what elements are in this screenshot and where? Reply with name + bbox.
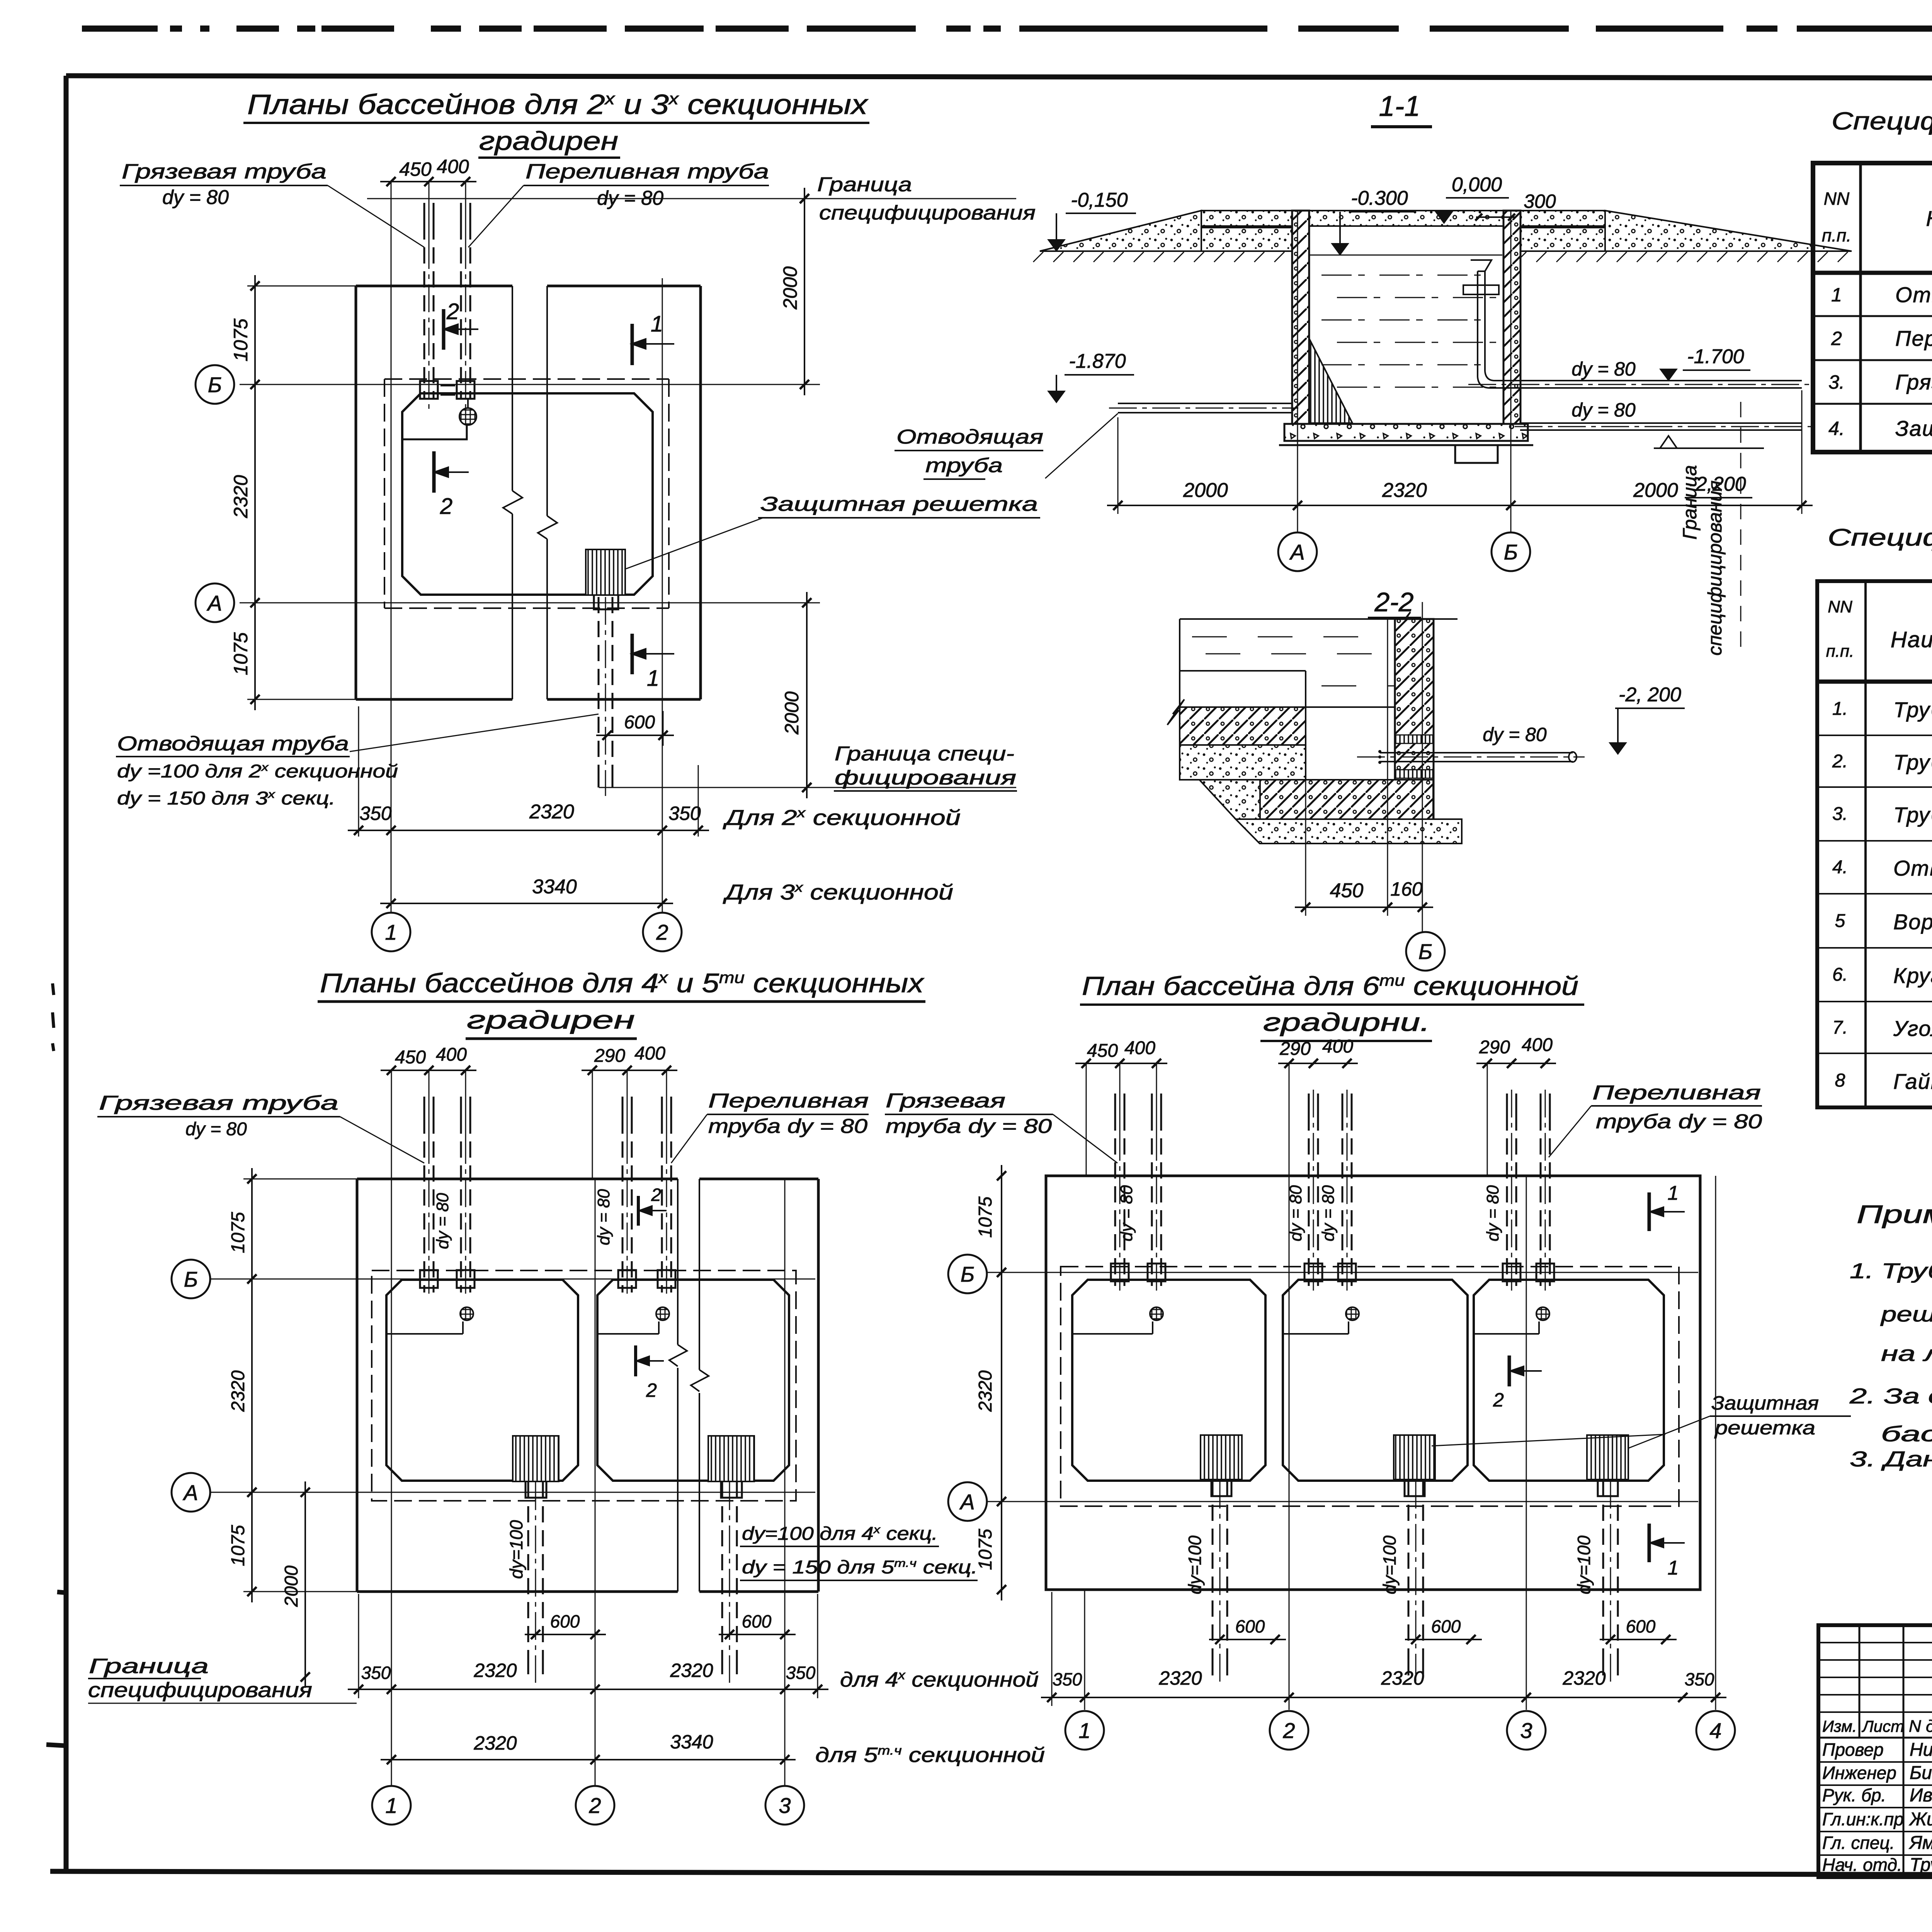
plan45 left dims 1075/2320/1075 [243, 1179, 357, 1180]
plan1 bottom dims for 3-section [380, 903, 673, 904]
basin solid contour [1283, 1280, 1468, 1481]
plan45 dashed hidden contour [372, 1270, 796, 1501]
svg-text:Наименование: Наименование [1891, 627, 1932, 652]
svg-text:2: 2 [446, 299, 459, 324]
svg-text:2320: 2320 [228, 1370, 248, 1412]
dim 600 at outlet pipe [596, 735, 674, 736]
plan6 funnels already in modules; protective grates [1201, 1435, 1242, 1480]
svg-text:2000: 2000 [779, 266, 801, 310]
svg-text:NN: NN [1824, 189, 1850, 209]
svg-text:3340: 3340 [532, 876, 577, 898]
plan45 dim 450/400 module1 [429, 1070, 430, 1140]
basin solid contour [597, 1280, 789, 1481]
plan45 axis circle 3 [765, 1786, 804, 1825]
svg-text:Гл. спец.: Гл. спец. [1822, 1833, 1895, 1853]
svg-text:градирен: градирен [479, 126, 618, 156]
svg-text:400: 400 [634, 1043, 665, 1064]
svg-text:Переливная труба: Переливная труба [1895, 326, 1932, 350]
section 1-1 drain pipe dy=80 lower [1520, 422, 1802, 424]
svg-text:Труба 102 × 3: Труба 102 × 3 [1893, 750, 1932, 774]
plan45 axis circle 1 [372, 1786, 411, 1825]
svg-text:Отводящая труба: Отводящая труба [117, 733, 349, 755]
section 1-1 overflow funnel and pipe elbow [1471, 260, 1492, 271]
section 1-1 water surface and water lines [1310, 255, 1502, 256]
svg-text:Круг ф 6: Круг ф 6 [1893, 963, 1932, 988]
svg-text:350: 350 [1053, 1669, 1082, 1689]
svg-text:1: 1 [1831, 284, 1842, 306]
svg-text:Труба 89 × 3: Труба 89 × 3 [1893, 697, 1932, 722]
svg-text:2320: 2320 [529, 801, 574, 823]
section mark 1 lower [631, 634, 634, 674]
level mark -2.200 [1654, 447, 1764, 449]
svg-text:Жиров: Жиров [1909, 1809, 1932, 1830]
svg-text:0,000: 0,000 [1452, 173, 1502, 196]
lower granitsa boundary of plan1 [599, 787, 1016, 788]
plan45 section mark 2 middle [634, 1345, 637, 1376]
section 1-1 fill below rim outside walls [1201, 228, 1292, 251]
svg-text:Примечания:: Примечания: [1857, 1200, 1932, 1228]
svg-text:dy = 80: dy = 80 [185, 1119, 247, 1139]
section 1-1 dimensions 2000/2320/2000 [1117, 417, 1119, 514]
plan6 axis circle B [948, 1255, 987, 1293]
svg-text:Воронка δ=6мм: Воронка δ=6мм [1893, 910, 1932, 934]
svg-text:Граница: Граница [89, 1655, 209, 1678]
svg-text:1075: 1075 [230, 318, 252, 361]
svg-text:решетки окрасить в соответс: решетки окрасить в соответствии с указан… [1880, 1302, 1932, 1326]
svg-text:Отвод 90°: Отвод 90° [1893, 856, 1932, 880]
section 1-1 ground line with hatching [1040, 250, 1292, 252]
svg-text:dy = 80: dy = 80 [1571, 358, 1636, 380]
svg-text:труба dy = 80: труба dy = 80 [886, 1115, 1052, 1138]
svg-text:решетка: решетка [1714, 1417, 1815, 1439]
svg-text:Б: Б [1418, 939, 1432, 964]
section 2-2 wall in section hatched [1395, 619, 1434, 819]
svg-text:1075: 1075 [975, 1196, 996, 1238]
svg-text:dy=100: dy=100 [1185, 1535, 1205, 1594]
plan1 axis circle 1 [372, 913, 410, 951]
plan45 axis circle A [172, 1473, 210, 1512]
svg-text:А: А [182, 1480, 198, 1505]
svg-text:1.: 1. [1832, 699, 1848, 719]
svg-text:dy =100 для 2х секционной: dy =100 для 2х секционной [117, 761, 398, 782]
plan6 axis circle A [948, 1482, 987, 1521]
svg-text:А: А [1289, 540, 1304, 564]
section 2-2 water dash lines [1192, 636, 1227, 638]
svg-text:2320: 2320 [473, 1732, 517, 1754]
plan1 outlet pipe (otvodyashchaya truba) going down [598, 597, 600, 767]
section 2-2 left apron band [1180, 707, 1306, 745]
plan1 bottom dims for 2-section [358, 706, 359, 837]
basin solid contour [1474, 1280, 1664, 1481]
svg-text:2. За отметку 0,000 при: 2. За отметку 0,000 принят верх водосбор… [1849, 1384, 1932, 1408]
basin sump line and funnel [386, 1333, 463, 1335]
svg-text:-2, 200: -2, 200 [1619, 684, 1681, 706]
svg-text:7.: 7. [1832, 1017, 1848, 1038]
svg-text:290: 290 [1279, 1039, 1311, 1059]
svg-text:2320: 2320 [1381, 1667, 1424, 1689]
plan1 axis line B [240, 384, 820, 385]
svg-text:3: 3 [779, 1793, 791, 1818]
section 2-2 pipe dy=80 through wall [1380, 752, 1573, 753]
svg-text:п.п.: п.п. [1826, 642, 1854, 661]
section 1-1 wall axes [1297, 211, 1298, 532]
svg-text:2320: 2320 [1158, 1667, 1202, 1689]
basin solid contour [1072, 1280, 1265, 1481]
svg-text:Изм.: Изм. [1822, 1717, 1857, 1735]
svg-text:Грязевая труба: Грязевая труба [1895, 370, 1932, 394]
svg-text:Гайка М6: Гайка М6 [1893, 1069, 1932, 1094]
plan1 axis line A [240, 602, 820, 604]
svg-text:1: 1 [385, 1793, 397, 1818]
svg-text:400: 400 [437, 156, 469, 177]
svg-text:2000: 2000 [281, 1565, 302, 1607]
svg-text:-1.870: -1.870 [1069, 350, 1126, 372]
plan1 protective grate (zashchitnaya reshetka) [586, 549, 625, 595]
svg-text:dy=100: dy=100 [506, 1520, 526, 1579]
svg-text:dy=100 для 4х секц.: dy=100 для 4х секц. [742, 1524, 938, 1544]
plan6 axis circle 1 [1065, 1711, 1104, 1750]
svg-text:450: 450 [399, 158, 432, 180]
svg-text:труба dy = 80: труба dy = 80 [1596, 1111, 1762, 1133]
section 2-2 left lower rubble band [1180, 745, 1306, 780]
svg-text:350: 350 [361, 1663, 391, 1683]
basin sump line and funnel [1474, 1333, 1539, 1335]
svg-text:Рук. бр.: Рук. бр. [1822, 1785, 1886, 1805]
scan artifact: top dashed streak [82, 26, 158, 32]
plan45 vertical axes 1 2 3 [391, 1070, 392, 1785]
svg-text:2: 2 [1282, 1718, 1295, 1743]
svg-text:Спецификация материалов на: Спецификация материалов на водосборный б… [1828, 524, 1932, 551]
svg-text:Б: Б [961, 1262, 975, 1286]
svg-text:-1.700: -1.700 [1687, 345, 1744, 368]
svg-text:специфицирования: специфицирования [819, 202, 1036, 224]
plan45 axis circle B [172, 1260, 210, 1298]
svg-text:dy = 80: dy = 80 [1483, 1185, 1502, 1242]
basin solid contour [386, 1280, 578, 1481]
svg-text:2: 2 [588, 1793, 601, 1818]
svg-text:2000: 2000 [781, 691, 803, 735]
svg-text:Граница: Граница [1679, 465, 1701, 540]
plan1 axis circle 2 [643, 913, 682, 951]
svg-text:1: 1 [1668, 1182, 1679, 1204]
dim 2000 upper right [804, 188, 805, 395]
svg-text:Защитная решетка: Защитная решетка [1895, 416, 1932, 440]
section 1-1 axis circle B [1492, 532, 1530, 571]
svg-text:п.п.: п.п. [1822, 225, 1851, 245]
section 1-1 outlet pipe at left [1118, 403, 1292, 404]
svg-text:Труба 152 × 4: Труба 152 × 4 [1893, 803, 1932, 827]
section 2-2 floor slab hatched [1260, 780, 1433, 819]
svg-text:для 4х секционной: для 4х секционной [840, 1668, 1039, 1691]
plan6 top pipes [1114, 1094, 1116, 1114]
plan45 section mark 2 top [637, 1196, 640, 1226]
svg-text:1075: 1075 [228, 1212, 248, 1253]
svg-text:Гл.ин:к.пр: Гл.ин:к.пр [1822, 1809, 1904, 1829]
plan45 protective grates [513, 1436, 559, 1481]
plan45 bottom dims row for 5-section [381, 1759, 796, 1760]
svg-text:Грязевая труба: Грязевая труба [99, 1092, 338, 1114]
svg-text:400: 400 [1322, 1036, 1353, 1057]
svg-text:1075: 1075 [975, 1529, 996, 1570]
svg-text:1: 1 [1668, 1557, 1679, 1579]
svg-text:dy = 80: dy = 80 [594, 1189, 613, 1245]
upper granitsa spetsifitsirovaniya boundary [367, 198, 1016, 199]
svg-text:8: 8 [1835, 1070, 1845, 1091]
plan45 dim 2000 to boundary [304, 1481, 306, 1688]
plan6 outer block [1046, 1176, 1700, 1590]
leader to dirty pipe [328, 185, 424, 247]
svg-text:труба dy = 80: труба dy = 80 [708, 1115, 867, 1138]
svg-text:Граница специ-: Граница специ- [835, 743, 1014, 765]
plan6 left dims 1075/2320/1075 [1001, 1165, 1002, 1600]
svg-text:фицирования: фицирования [835, 767, 1016, 789]
svg-text:2-2: 2-2 [1374, 587, 1413, 617]
plan45 axis circle 2 [576, 1786, 614, 1825]
section mark 1 upper [631, 324, 634, 365]
svg-text:600: 600 [742, 1611, 772, 1631]
svg-text:350: 350 [1685, 1669, 1714, 1689]
svg-text:350: 350 [786, 1663, 816, 1683]
sheet frame [66, 76, 1932, 79]
svg-text:3.: 3. [1832, 804, 1848, 824]
plan1 outer basin block outline [356, 285, 512, 287]
plan6 vertical axes [1084, 1590, 1085, 1710]
svg-text:Защитная решетка: Защитная решетка [760, 493, 1038, 515]
svg-text:2: 2 [646, 1379, 657, 1401]
table1 grid [1813, 163, 1932, 452]
svg-text:160: 160 [1390, 878, 1423, 900]
table2 grid [1817, 581, 1932, 1107]
svg-text:1: 1 [1078, 1718, 1090, 1743]
plan45 600 dims [525, 1634, 606, 1635]
svg-text:290: 290 [594, 1046, 625, 1066]
section mark 2 upper [442, 309, 446, 350]
svg-text:4.: 4. [1832, 857, 1848, 878]
svg-text:Для 3х секционной: Для 3х секционной [723, 880, 953, 904]
revision header row [1818, 1737, 1932, 1739]
svg-text:2320: 2320 [670, 1660, 713, 1681]
section 1-1 axis circle A [1278, 532, 1317, 571]
svg-text:на листе НВ - ПЗ.: на листе НВ - ПЗ. [1881, 1341, 1932, 1366]
plan6 dashed hidden contour [1061, 1267, 1679, 1506]
funnel support bracket [1463, 285, 1499, 294]
svg-text:450: 450 [1087, 1041, 1118, 1061]
section 2-2 base prep dotted band [1236, 819, 1462, 844]
svg-text:1. Трубопроводы в пределах: 1. Трубопроводы в пределах бассейна и за… [1850, 1259, 1932, 1283]
svg-text:600: 600 [1431, 1616, 1461, 1636]
basin sump line and funnel [1283, 1333, 1349, 1335]
svg-text:600: 600 [1626, 1616, 1656, 1636]
svg-text:2320: 2320 [975, 1370, 996, 1412]
plan6 section mark 2 [1508, 1355, 1511, 1386]
plan6 section mark 1 top [1648, 1192, 1651, 1231]
leader to overflow pipe [468, 185, 524, 247]
svg-text:Б: Б [184, 1267, 198, 1291]
svg-text:Переливная: Переливная [1592, 1082, 1761, 1104]
svg-text:600: 600 [624, 712, 655, 733]
plan6 bottom dim row [1051, 1592, 1053, 1706]
svg-text:специфицирования: специфицирования [88, 1679, 312, 1702]
svg-text:Провер: Провер [1822, 1740, 1884, 1760]
svg-text:1: 1 [647, 666, 659, 691]
plan6 axis lines [988, 1272, 1698, 1273]
svg-text:2: 2 [440, 494, 452, 519]
svg-text:Грязевая труба: Грязевая труба [122, 160, 327, 183]
svg-text:Ямпольский: Ямпольский [1908, 1833, 1932, 1853]
plan45 top pipes module1 [423, 1097, 425, 1117]
plan6 section mark 1 bottom [1648, 1524, 1651, 1562]
svg-text:dy = 80: dy = 80 [1117, 1185, 1136, 1242]
plan45 dim 290/400 module2 [592, 1070, 593, 1179]
svg-text:2: 2 [1831, 328, 1842, 349]
svg-text:2320: 2320 [1562, 1667, 1605, 1689]
plan45 axis lines [211, 1279, 815, 1280]
svg-text:специфицирования: специфицирования [1704, 480, 1726, 655]
svg-text:400: 400 [436, 1044, 467, 1065]
svg-text:dy = 80: dy = 80 [1571, 399, 1636, 421]
svg-text:Бисьева: Бисьева [1910, 1763, 1932, 1783]
svg-text:350: 350 [668, 803, 701, 824]
plan1 overflow pipe (perelivnaya truba) dashed pair [460, 203, 462, 223]
plan6 axis circle 2 [1270, 1711, 1308, 1750]
svg-text:труба: труба [925, 454, 1003, 477]
svg-text:Грязевая: Грязевая [886, 1090, 1005, 1112]
svg-text:Переливная: Переливная [708, 1090, 869, 1112]
section 1-1 left wall concrete [1292, 211, 1309, 424]
svg-text:2320: 2320 [473, 1660, 517, 1681]
svg-text:6.: 6. [1832, 964, 1848, 985]
section 1-1 embankment slopes and rim band [1040, 211, 1201, 251]
svg-text:бассейна.: бассейна. [1881, 1422, 1932, 1446]
svg-text:400: 400 [1522, 1035, 1553, 1055]
svg-text:400: 400 [1124, 1038, 1155, 1058]
basin sump line and funnel [597, 1333, 659, 1335]
svg-text:2000: 2000 [1183, 479, 1228, 502]
svg-text:1: 1 [651, 311, 663, 337]
svg-text:Граница: Граница [817, 173, 912, 196]
svg-text:Б: Б [208, 372, 222, 397]
svg-text:450: 450 [395, 1047, 426, 1068]
svg-text:2320: 2320 [1382, 479, 1427, 502]
svg-text:2: 2 [651, 1185, 661, 1205]
plan1 break lines with zigzag [512, 286, 513, 491]
svg-text:4: 4 [1709, 1718, 1721, 1743]
svg-text:dy = 80: dy = 80 [162, 186, 229, 209]
svg-text:1: 1 [385, 920, 397, 944]
svg-text:Планы бассейнов для 2х и 3х: Планы бассейнов для 2х и 3х секционных [247, 89, 869, 120]
plan45 outlet pipes dy=100 down [527, 1482, 529, 1654]
plan6 outlet pipes dy=100 [1212, 1481, 1214, 1655]
basin sump line and funnel [1072, 1333, 1153, 1335]
svg-text:-0,150: -0,150 [1071, 189, 1128, 211]
svg-text:для 5т.ч секционной: для 5т.ч секционной [815, 1743, 1045, 1767]
svg-text:Лист: Лист [1861, 1717, 1904, 1735]
section 1-1 right wall concrete [1503, 211, 1520, 424]
svg-text:Никитина: Никитина [1910, 1740, 1932, 1760]
svg-text:600: 600 [550, 1611, 580, 1631]
svg-text:Наименование элемента: Наименование элемента [1926, 206, 1932, 231]
plan1 sump notch and overflow funnel [402, 425, 467, 439]
section 1-1 sump block under slab [1455, 445, 1498, 463]
title block left revision table verticals [1859, 1625, 1861, 1738]
section 1-1 bottom slab concrete [1284, 424, 1528, 441]
section 2-2 axis line and circle B [1422, 602, 1423, 932]
svg-text:-0.300: -0.300 [1351, 187, 1408, 209]
plan6 top dims [1086, 1063, 1087, 1176]
svg-text:3340: 3340 [670, 1731, 713, 1753]
svg-text:Нач. отд.: Нач. отд. [1822, 1855, 1902, 1875]
svg-text:2: 2 [1493, 1389, 1504, 1411]
svg-text:dy = 80: dy = 80 [433, 1193, 452, 1249]
svg-text:Иванова: Иванова [1910, 1785, 1932, 1806]
svg-text:dy=100: dy=100 [1379, 1535, 1400, 1594]
svg-text:Отводящая труба: Отводящая труба [1895, 282, 1932, 307]
title block small revision rows [1818, 1642, 1932, 1643]
svg-text:Планы бассейнов для 4х и 5т: Планы бассейнов для 4х и 5ти секционных [320, 968, 925, 998]
plan45 top pipes module2 [622, 1097, 624, 1117]
svg-text:3.: 3. [1828, 371, 1845, 393]
plan6 600 dims [1209, 1639, 1286, 1640]
svg-text:Трубников: Трубников [1910, 1855, 1932, 1875]
svg-text:План бассейна для 6ти секц: План бассейна для 6ти секционной [1082, 971, 1578, 1001]
plan45 bottom dims row for 4-section [358, 1594, 359, 1698]
svg-text:NN: NN [1828, 597, 1852, 616]
svg-text:градирен: градирен [467, 1005, 635, 1034]
svg-text:Уголок 50×50×5: Уголок 50×50×5 [1893, 1016, 1932, 1041]
plan6 axis circle 3 [1507, 1711, 1546, 1750]
svg-text:350: 350 [359, 803, 392, 824]
svg-text:Переливная труба: Переливная труба [526, 160, 769, 183]
plan45 outer block [357, 1178, 678, 1180]
svg-text:2320: 2320 [230, 475, 252, 518]
plan1 pipe wall sleeves at axis B [420, 381, 438, 399]
plan1 dirty pipe (gryazevaya truba) dashed pair [423, 203, 425, 223]
svg-text:dy = 150 для 5т.ч секц.: dy = 150 для 5т.ч секц. [742, 1557, 978, 1578]
plan1 vertical axes 1 and 2 [391, 182, 392, 912]
section 2-2 tank walls outline [1180, 618, 1405, 620]
svg-text:dy = 80: dy = 80 [1319, 1185, 1338, 1242]
plan1 dim 450/400 top [429, 182, 430, 243]
svg-text:Спецификация элементов на г: Спецификация элементов на градирню [1832, 107, 1932, 135]
leader to outlet pipe [350, 714, 599, 752]
svg-text:5: 5 [1835, 911, 1845, 931]
svg-text:dy=100: dy=100 [1574, 1535, 1594, 1594]
svg-text:2000: 2000 [1633, 479, 1678, 502]
svg-text:Б: Б [1504, 540, 1518, 564]
section mark 2 lower [432, 451, 436, 493]
plan1 axis circle A [196, 583, 234, 622]
plan6 axis circle 4 [1696, 1711, 1735, 1750]
svg-text:450: 450 [1330, 879, 1364, 902]
svg-text:А: А [206, 591, 222, 615]
plan1 basin inner contour with chamfered corners [402, 393, 653, 595]
plan1 basin hidden contour dashed [384, 378, 669, 380]
svg-text:1075: 1075 [228, 1525, 248, 1566]
dim 2000 lower right [806, 592, 808, 798]
section 1-1 overflow pipe dy=80 to the right [1520, 380, 1802, 381]
section 2-2 small hatched strips at pipe penetration [1396, 735, 1433, 743]
plan1 left vertical dims 1075/2320/1075 [247, 286, 356, 287]
svg-text:Для 2х секционной: Для 2х секционной [722, 805, 961, 830]
plan1 axis circle B [196, 365, 234, 404]
svg-text:1075: 1075 [230, 632, 252, 675]
title block outer [1818, 1625, 1932, 1877]
svg-text:1-1: 1-1 [1379, 90, 1420, 122]
section 2-2 dims 450 and 160 [1305, 711, 1306, 916]
svg-text:300: 300 [1524, 190, 1556, 212]
svg-text:4.: 4. [1828, 418, 1845, 439]
svg-text:3: 3 [1520, 1718, 1532, 1743]
